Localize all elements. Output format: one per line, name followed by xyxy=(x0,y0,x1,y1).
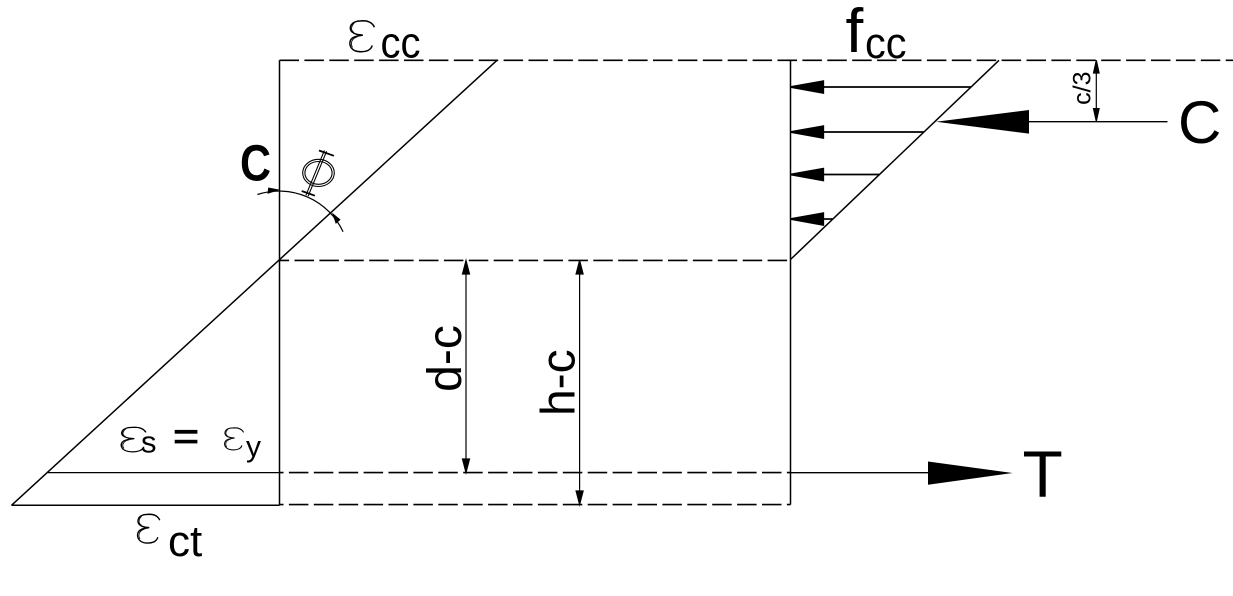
svg-text:h-c: h-c xyxy=(533,349,586,416)
svg-text:T: T xyxy=(1023,437,1063,511)
svg-text:y: y xyxy=(246,431,261,464)
svg-text:ct: ct xyxy=(168,517,202,566)
svg-text:C: C xyxy=(1178,89,1221,156)
svg-text:f: f xyxy=(846,0,865,66)
svg-text:c/3: c/3 xyxy=(1069,72,1097,105)
svg-text:d-c: d-c xyxy=(419,325,472,392)
svg-text:C: C xyxy=(240,135,271,192)
svg-text:cc: cc xyxy=(865,19,907,68)
svg-text:s: s xyxy=(141,425,157,460)
svg-text:cc: cc xyxy=(381,19,421,68)
